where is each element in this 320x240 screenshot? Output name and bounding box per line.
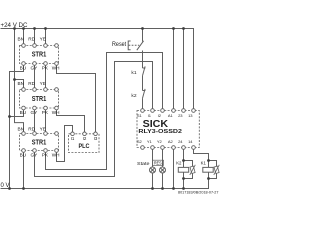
wire: PK3 to relay input I2 xyxy=(46,53,163,170)
wire: rail stub to YE1 xyxy=(45,29,47,44)
svg-text:BN: BN xyxy=(17,37,24,42)
PLC box xyxy=(69,134,100,153)
svg-text:WH: WH xyxy=(52,152,60,157)
wire: rail stub to A1 xyxy=(173,29,175,109)
wire: WH1 to PLC I3 xyxy=(57,65,96,132)
wire: PK2 to YE3 xyxy=(45,110,47,132)
wire: K2 suppressor loop xyxy=(184,161,193,179)
labels STR1 #1 pins xyxy=(17,37,59,158)
svg-text:STR1: STR1 xyxy=(32,138,47,147)
indicator lamp State xyxy=(150,167,156,173)
svg-text:23: 23 xyxy=(178,113,183,118)
svg-text:State: State xyxy=(137,161,150,167)
svg-text:I3: I3 xyxy=(94,136,98,141)
safety relay U1 SICK RLY3-OSSD2 box xyxy=(137,111,199,148)
switch Reset (NO pushbutton) xyxy=(128,41,143,50)
svg-text:PK: PK xyxy=(42,110,49,115)
svg-text:BN: BN xyxy=(17,126,24,131)
svg-text:I1: I1 xyxy=(71,136,75,141)
indicator lamp RES xyxy=(160,167,166,173)
contact k2 (NC) xyxy=(143,89,146,98)
terminal circles: relay bottom S2 Y1 Y2 A2 24 14 xyxy=(141,146,145,150)
svg-text:GY: GY xyxy=(31,65,39,70)
svg-text:SICK: SICK xyxy=(143,119,169,130)
wire: GY3 to relay input I1 xyxy=(35,62,153,177)
0 V rail xyxy=(1,179,209,189)
svg-text:BU: BU xyxy=(20,110,27,115)
svg-text:RLY3-OSSD2: RLY3-OSSD2 xyxy=(138,129,182,135)
svg-text:BN: BN xyxy=(17,81,24,86)
terminal circles: STR1 #1 xyxy=(22,44,196,153)
wire: terminal 24 to coil K2 to 0V xyxy=(183,149,185,188)
wire: K1 suppressor loop xyxy=(209,161,217,179)
svg-text:K2: K2 xyxy=(176,160,182,165)
svg-text:BU: BU xyxy=(20,65,27,70)
svg-text:BU: BU xyxy=(20,152,27,157)
svg-text:K1: K1 xyxy=(201,160,207,165)
svg-text:k2: k2 xyxy=(131,93,136,99)
suppressor of K1 xyxy=(214,165,220,175)
svg-text:PK: PK xyxy=(42,65,49,70)
wire: +24V feed line to BN2/BN3 xyxy=(15,29,24,132)
wire: WH3 to PLC I1 xyxy=(57,126,73,162)
wire: reset chain upper segment xyxy=(142,29,144,42)
svg-text:GY: GY xyxy=(31,110,39,115)
wire: rail stub to BN1 xyxy=(23,29,25,44)
labels PLC pins I1 I2 I3 xyxy=(71,136,98,141)
svg-text:RES.: RES. xyxy=(154,161,163,166)
svg-text:YE: YE xyxy=(40,81,46,86)
wire: BU3 to 0V rail xyxy=(23,152,25,188)
relay coil K2 xyxy=(178,167,188,172)
svg-text:Y2: Y2 xyxy=(157,139,163,144)
suppressor of K2 xyxy=(190,165,196,175)
labels relay top pins xyxy=(137,113,193,144)
svg-text:13: 13 xyxy=(188,113,193,118)
wire: branch to STR1 #2 BN xyxy=(15,80,24,88)
svg-text:RD: RD xyxy=(28,37,35,42)
svg-text:24: 24 xyxy=(178,139,183,144)
STR1 switch #1 box xyxy=(20,46,59,64)
wire: GY2 to RD3 xyxy=(34,110,36,132)
svg-text:A1: A1 xyxy=(168,113,174,118)
svg-text:A2: A2 xyxy=(168,139,174,144)
svg-text:YE: YE xyxy=(40,126,46,131)
svg-text:S1: S1 xyxy=(137,113,143,118)
terminal circles: STR1 #3 xyxy=(22,132,26,136)
wire: PK1 to YE2 xyxy=(45,65,47,87)
svg-text:RD: RD xyxy=(28,81,35,86)
svg-text:0 V: 0 V xyxy=(1,182,11,189)
terminal circles: relay top S1 I1 I2 A1 23 13 xyxy=(141,109,145,113)
svg-text:PLC: PLC xyxy=(79,143,90,150)
wire: Y2 to RES lamp to 0V xyxy=(162,149,164,188)
wire: reset chain between k1 and k2 xyxy=(142,76,144,91)
svg-text:STR1: STR1 xyxy=(32,49,47,58)
wire: WH2 to PLC I2 xyxy=(57,110,85,132)
STR1 switch #3 box xyxy=(20,134,59,151)
svg-text:PK: PK xyxy=(42,152,49,157)
terminal circles: PLC I1 I2 I3 xyxy=(71,132,75,136)
svg-text:I1: I1 xyxy=(148,113,152,118)
svg-text:STR1: STR1 xyxy=(32,94,47,103)
wire: GY1 to RD2 xyxy=(34,65,36,87)
svg-text:Y1: Y1 xyxy=(147,139,153,144)
wire: terminal 14 to coil K1 to 0V xyxy=(194,149,209,188)
svg-text:GY: GY xyxy=(31,152,39,157)
svg-text:YE: YE xyxy=(40,37,46,42)
wire: reset chain to S1 xyxy=(142,98,144,109)
wire: BU2 to 0V collector xyxy=(10,110,24,117)
terminal circles: STR1 #2 xyxy=(22,88,26,92)
svg-text:RD: RD xyxy=(28,126,35,131)
relay coil K1 xyxy=(203,167,213,172)
contact k1 (NC) xyxy=(143,66,146,75)
svg-text:Reset: Reset xyxy=(112,42,126,48)
svg-text:WH: WH xyxy=(52,110,60,115)
svg-text:14: 14 xyxy=(188,139,193,144)
svg-text:8017183/0B/2018-07-27: 8017183/0B/2018-07-27 xyxy=(178,191,219,195)
svg-text:WH: WH xyxy=(52,65,60,70)
STR1 switch #2 box xyxy=(20,90,59,109)
svg-text:I2: I2 xyxy=(158,113,162,118)
svg-text:k1: k1 xyxy=(131,70,136,76)
wire: reset chain between Reset and k1 xyxy=(142,51,144,69)
svg-text:S2: S2 xyxy=(137,139,143,144)
+24 V DC supply rail xyxy=(1,29,194,109)
wire: rail stub to 23 xyxy=(183,29,185,109)
wire: A2 to 0V xyxy=(173,149,175,188)
wire: rail stub to RD1 xyxy=(34,29,36,44)
label RES with frame xyxy=(153,160,164,165)
wire: BU1 to 0V collector xyxy=(10,65,24,188)
wire: Y1 to State lamp to 0V xyxy=(152,149,154,188)
svg-text:+24 V DC: +24 V DC xyxy=(1,22,28,29)
svg-text:I2: I2 xyxy=(83,136,87,141)
